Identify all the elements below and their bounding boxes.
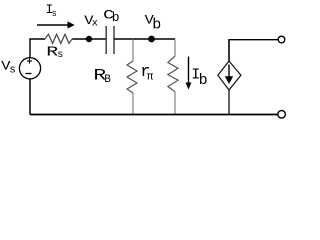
resistor Rs: [45, 34, 72, 43]
svg-text:b: b: [112, 10, 120, 25]
wire r-pi bottom stub: [174, 92, 176, 115]
wire Rs to capacitor: [72, 38, 106, 40]
voltage source Vs: [19, 58, 40, 79]
svg-text:s: s: [9, 65, 16, 77]
svg-text:π: π: [147, 72, 154, 84]
minus sign: [26, 73, 32, 75]
wire top-left corner from Vs to Rs: [30, 39, 45, 58]
svg-text:s: s: [52, 9, 57, 19]
resistor r-pi: [168, 56, 178, 92]
svg-text:b: b: [199, 72, 208, 89]
svg-text:B: B: [104, 74, 111, 86]
wire Vs bottom to ground rail: [29, 79, 31, 115]
plus sign: [27, 60, 32, 62]
wire RB bottom stub: [132, 93, 134, 115]
wire diamond top stub: [228, 40, 230, 61]
current arrow Is: [37, 24, 69, 26]
terminal bottom-right: [278, 111, 286, 119]
node Vb: [148, 36, 155, 43]
dependent current source diamond: [218, 61, 241, 90]
svg-text:s: s: [57, 50, 63, 61]
wire capacitor to r-pi corner: [114, 38, 175, 40]
node Vx: [86, 36, 92, 42]
wire diamond bottom stub: [228, 90, 230, 115]
svg-text:x: x: [92, 18, 98, 30]
arrow inside diamond: [228, 65, 230, 79]
wire r-pi top stub with corner: [174, 39, 176, 56]
current arrow Ib: [188, 57, 190, 85]
wire top-right to terminal: [229, 40, 278, 61]
resistor RB: [127, 61, 137, 93]
wire bottom rail: [30, 114, 278, 116]
terminal top-right: [278, 36, 285, 43]
wire RB top stub: [132, 39, 134, 61]
svg-text:b: b: [152, 17, 161, 34]
capacitor Cb: [105, 26, 107, 54]
